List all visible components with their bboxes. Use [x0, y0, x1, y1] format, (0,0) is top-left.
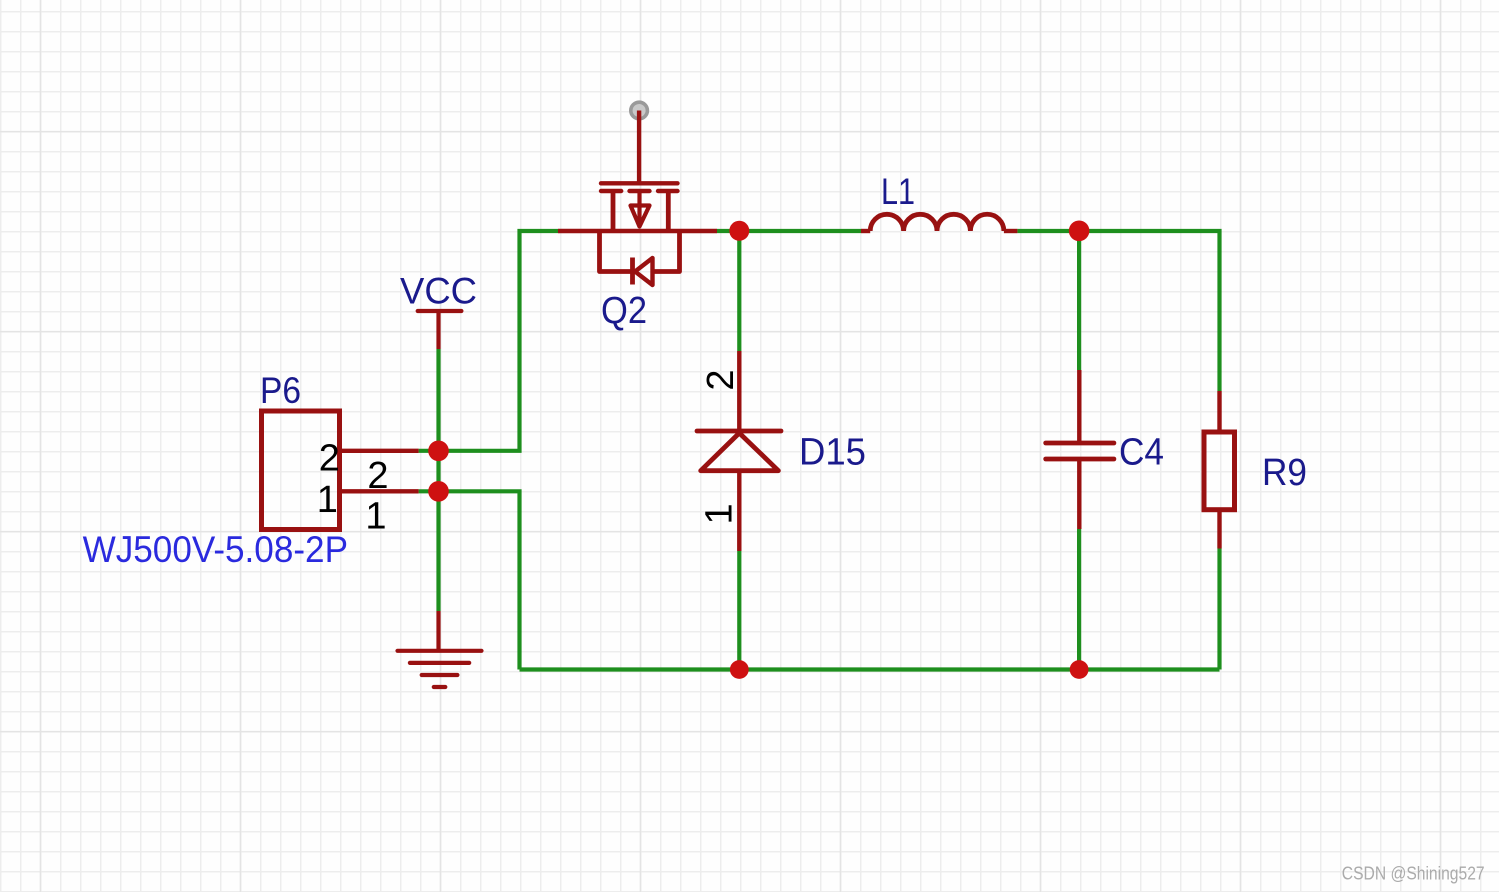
diode D15 cathode bar	[697, 429, 781, 434]
svg-text:Q2: Q2	[601, 290, 647, 332]
capacitor C4 plates	[1046, 443, 1114, 459]
resistor R9 bottom lead	[1217, 510, 1221, 549]
transistor Q2 substrate arrow	[637, 191, 641, 224]
resistor R9 body	[1204, 432, 1235, 510]
svg-text:2: 2	[700, 369, 742, 390]
svg-text:1: 1	[365, 496, 386, 538]
wire D15 bottom down	[737, 551, 741, 670]
wire P6 pin2 to Q2 source	[419, 231, 558, 451]
junction node L1 right	[1069, 221, 1090, 242]
svg-text:D15: D15	[799, 432, 866, 474]
inductor L1	[861, 229, 870, 233]
svg-text:CSDN @Shining527: CSDN @Shining527	[1342, 864, 1485, 884]
wire C4 bottom down	[1077, 529, 1081, 670]
wire Q2 drain to L1	[717, 229, 861, 233]
wire L1 to R9 top right corner	[1017, 231, 1219, 391]
transistor Q2 pin circle	[631, 102, 648, 119]
capacitor C4 top lead	[1077, 370, 1081, 441]
junction node P6 pin2	[428, 441, 449, 462]
diode D15 top lead	[737, 351, 741, 431]
transistor Q2 body diode cathode bar	[630, 258, 635, 285]
resistor R9 top lead	[1217, 391, 1221, 432]
junction node C4 bottom	[1070, 660, 1089, 679]
wire node to C4 top	[1077, 231, 1081, 370]
diode D15 bottom lead	[737, 471, 741, 551]
junction node P6 pin1	[428, 481, 449, 502]
transistor Q2 gate lead	[637, 111, 641, 184]
connector P6 body	[262, 411, 340, 530]
diode D15 triangle	[701, 433, 779, 471]
power VCC bar	[418, 311, 462, 349]
junction node Q2 drain	[729, 221, 749, 241]
wire VCC to ground vertical	[436, 349, 440, 611]
svg-text:C4: C4	[1119, 431, 1164, 473]
connector P6 pin 1	[342, 489, 419, 493]
svg-text:WJ500V-5.08-2P: WJ500V-5.08-2P	[83, 529, 348, 570]
transistor Q2 body diode triangle	[635, 258, 653, 285]
svg-text:1: 1	[699, 503, 741, 524]
connector P6 pin 2	[342, 449, 419, 453]
wire node to D15 top	[737, 231, 741, 351]
svg-text:VCC: VCC	[400, 271, 477, 312]
wire P6 pin1 down left side	[419, 491, 520, 669]
svg-text:L1: L1	[881, 171, 915, 212]
ground	[398, 611, 482, 687]
capacitor C4 bottom lead	[1077, 461, 1081, 529]
wire R9 bottom down	[1217, 549, 1221, 670]
transistor Q2 gate bar	[601, 181, 678, 185]
svg-text:2: 2	[319, 438, 340, 480]
transistor Q2 source-drain line	[558, 229, 717, 233]
svg-text:P6: P6	[260, 370, 301, 411]
junction node D15 bottom	[730, 660, 749, 679]
svg-text:2: 2	[367, 455, 388, 497]
transistor Q2 channel dashes	[601, 189, 678, 193]
transistor Q2 drain vertical	[666, 191, 671, 231]
transistor Q2 source vertical	[611, 191, 616, 231]
wire bottom rail	[520, 667, 1220, 671]
svg-text:R9: R9	[1262, 452, 1307, 494]
svg-text:1: 1	[317, 479, 338, 521]
transistor Q2 body diode loop	[600, 229, 632, 272]
